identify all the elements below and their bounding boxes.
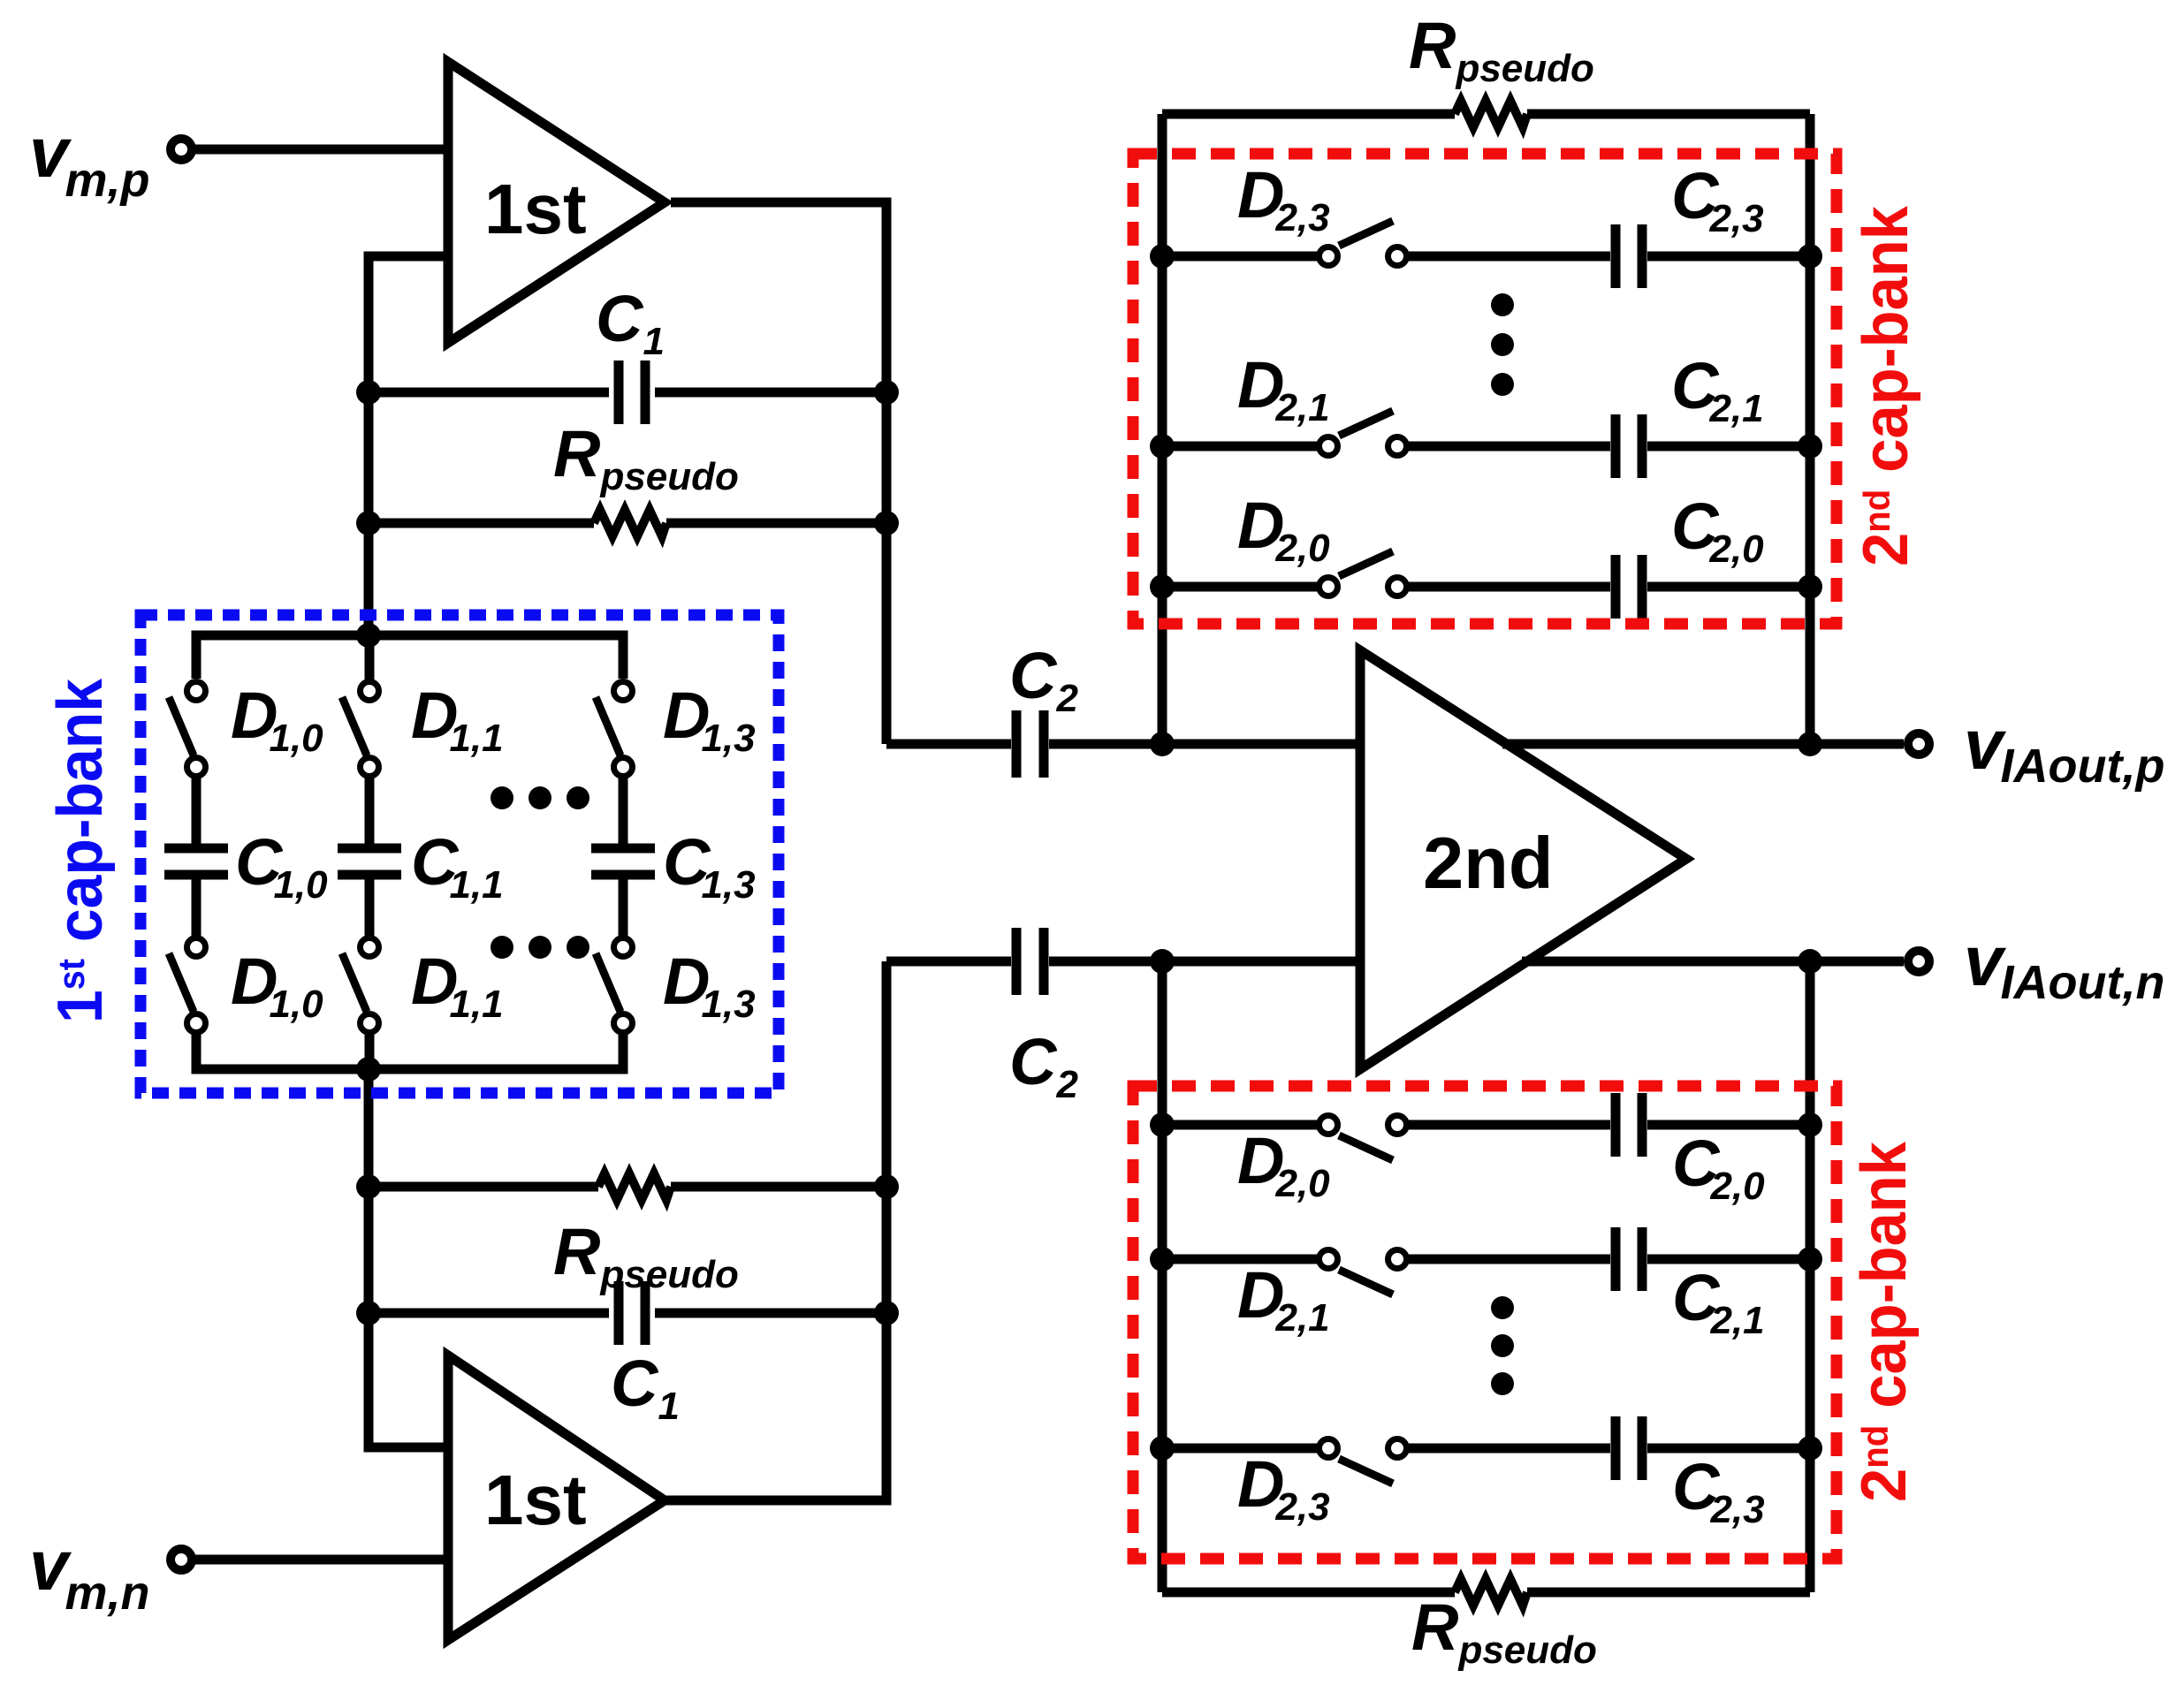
wire row D2,1 left	[1162, 1255, 1320, 1264]
switch D1,0 (bottom)	[169, 938, 206, 1033]
capacitor C1 (top)	[619, 361, 645, 424]
switch D2,0	[1319, 551, 1407, 596]
junction node top rail	[356, 623, 381, 648]
svg-text:1st: 1st	[484, 170, 587, 248]
junction node R bottom right	[874, 1174, 899, 1199]
wire row D2,0 middle	[1405, 582, 1610, 592]
switch D1,3 (bottom)	[596, 938, 633, 1033]
wire output p terminal stub	[1810, 740, 1904, 749]
junction node C2 top	[1150, 732, 1175, 756]
wire row D2,1 middle	[1405, 442, 1610, 452]
wire C1 top row left	[369, 388, 609, 398]
junction node C2 bottom	[1150, 949, 1175, 974]
capacitor C1,0	[164, 848, 228, 875]
1st cap-bank dashed box	[141, 615, 779, 1093]
capacitor C2,1	[1616, 414, 1642, 478]
ellipsis dots lower	[491, 936, 589, 959]
wire switch to cap	[619, 775, 628, 846]
wire C1 top row right	[655, 388, 886, 398]
wire U2 output to right rail	[665, 961, 886, 1500]
capacitor C2 (bottom)	[1016, 928, 1044, 995]
junction node row right	[1798, 244, 1822, 269]
resistor Rpseudo (top)	[1455, 101, 1527, 127]
wire Rpseudo top-left row right	[666, 519, 886, 528]
junction node row right	[1798, 1247, 1822, 1272]
junction node row left	[1150, 244, 1175, 269]
wire row D2,1 middle	[1405, 1255, 1610, 1264]
op-amp U3 2nd	[1360, 650, 1686, 1069]
wire 2nd cap-bank top-left rail	[1158, 114, 1167, 744]
switch D2,3	[1319, 1439, 1407, 1484]
wire switch to cap	[365, 775, 375, 846]
junction node C1 top right	[874, 380, 899, 405]
terminal v_IAout,n	[1908, 951, 1929, 972]
junction node output p	[1798, 732, 1822, 756]
wire 2nd cap-bank bottom-right rail	[1806, 961, 1815, 1592]
junction node R top left	[356, 511, 381, 535]
wire Rpseudo bottom row left	[1162, 1588, 1455, 1598]
wire row D2,1 left	[1162, 442, 1320, 452]
wire Rpseudo top row left	[1162, 110, 1455, 119]
switch D1,1 (top)	[342, 682, 379, 777]
wire switch to cap	[192, 775, 202, 846]
svg-text:1st: 1st	[484, 1461, 587, 1539]
junction node C1 bottom right	[874, 1301, 899, 1325]
junction node output n	[1798, 949, 1822, 974]
wire row C2,3 right	[1647, 252, 1810, 262]
wire row C2,0 right	[1647, 1120, 1810, 1130]
wire U1 output to right rail	[671, 202, 886, 744]
resistor Rpseudo (top-left)	[594, 510, 666, 536]
wire C2 bottom row right	[1049, 957, 1365, 967]
wire switch to bottom rail	[192, 1031, 202, 1069]
switch D2,1	[1319, 1250, 1407, 1295]
wire row D2,3 middle	[1405, 252, 1610, 262]
switch D1,1 (bottom)	[342, 938, 379, 1033]
terminal v_m,p	[171, 139, 192, 160]
switch D2,1	[1319, 411, 1407, 456]
wire 1st cap-bank top rail	[196, 635, 623, 679]
capacitor C2,0	[1616, 555, 1642, 619]
capacitor C2,3	[1616, 1416, 1642, 1480]
wire C2 bottom row	[886, 957, 1011, 967]
capacitor C2,0	[1616, 1093, 1642, 1157]
wire top rail to D1,1 switch	[365, 635, 375, 684]
wire row C2,3 right	[1647, 1444, 1810, 1454]
capacitor C1,3	[591, 848, 655, 875]
switch D2,0	[1319, 1116, 1407, 1161]
wire mid column lower segment	[369, 1069, 448, 1447]
wire C1 bottom row right	[655, 1309, 886, 1318]
wire row D2,0 middle	[1405, 1120, 1610, 1130]
ellipsis dots bottom bank	[1491, 1296, 1514, 1395]
wire switch to bottom rail	[365, 1031, 375, 1069]
wire Rpseudo bottom-left row right	[671, 1182, 886, 1192]
capacitor C2,3	[1616, 224, 1642, 288]
wire C2 top row	[886, 740, 1011, 749]
wire row C2,1 right	[1647, 442, 1810, 452]
wire C2 top row right	[1049, 740, 1365, 749]
wire 2nd cap-bank top-right rail	[1806, 114, 1815, 744]
junction node C1 top left	[356, 380, 381, 405]
ellipsis dots upper	[491, 786, 589, 809]
wire row D2,3 left	[1162, 252, 1320, 262]
wire row D2,0 left	[1162, 1120, 1320, 1130]
wire vmp input	[195, 145, 448, 155]
junction node bottom rail	[356, 1057, 381, 1082]
2nd cap-bank dashed box (top)	[1133, 154, 1837, 624]
switch D1,0 (top)	[169, 682, 206, 777]
capacitor C2 (top)	[1016, 710, 1044, 778]
switch D2,3	[1319, 221, 1407, 266]
ellipsis dots top bank	[1491, 293, 1514, 396]
2nd cap-bank dashed box (bottom)	[1133, 1086, 1837, 1559]
junction node row left	[1150, 574, 1175, 599]
wire Rpseudo bottom row right	[1527, 1588, 1810, 1598]
terminal v_m,n	[171, 1549, 192, 1570]
wire vmn input	[195, 1555, 448, 1565]
junction node row right	[1798, 1112, 1822, 1137]
junction node R bottom left	[356, 1174, 381, 1199]
wire U1 inverting input stub	[369, 256, 448, 635]
resistor Rpseudo (bottom)	[1455, 1579, 1527, 1606]
junction node R top right	[874, 511, 899, 535]
wire C1 bottom row left	[369, 1309, 609, 1318]
wire output n	[1522, 957, 1810, 967]
junction node row right	[1798, 574, 1822, 599]
wire row C2,0 right	[1647, 582, 1810, 592]
wire Rpseudo top row right	[1527, 110, 1810, 119]
terminal v_IAout,p	[1908, 733, 1929, 755]
junction node row right	[1798, 1436, 1822, 1461]
wire output p	[1502, 740, 1810, 749]
wire row D2,3 middle	[1405, 1444, 1610, 1454]
resistor Rpseudo (bottom-left)	[598, 1173, 671, 1200]
wire cap to switch	[365, 877, 375, 939]
op-amp U1 1st (top)	[448, 62, 665, 343]
junction node C1 bottom left	[356, 1301, 381, 1325]
wire row D2,3 left	[1162, 1444, 1320, 1454]
wire 1st cap-bank bottom rail	[196, 1037, 623, 1069]
junction node row left	[1150, 1112, 1175, 1137]
capacitor C2,1	[1616, 1227, 1642, 1291]
wire Rpseudo bottom-left row left	[369, 1182, 598, 1192]
capacitor C1,1	[338, 848, 401, 875]
wire switch to bottom rail	[619, 1031, 628, 1069]
svg-text:2nd: 2nd	[1423, 822, 1554, 904]
junction node row left	[1150, 1247, 1175, 1272]
wire cap to switch	[619, 877, 628, 939]
switch D1,3 (top)	[596, 682, 633, 777]
wire row D2,0 left	[1162, 582, 1320, 592]
wire row C2,1 right	[1647, 1255, 1810, 1264]
junction node row left	[1150, 1436, 1175, 1461]
wire cap to switch	[192, 877, 202, 939]
wire 2nd cap-bank bottom-left rail	[1158, 961, 1167, 1592]
wire Rpseudo top-left row left	[369, 519, 594, 528]
op-amp U2 1st (bottom)	[448, 1355, 665, 1640]
junction node row left	[1150, 434, 1175, 459]
junction node row right	[1798, 434, 1822, 459]
capacitor C1 (bottom)	[619, 1281, 645, 1345]
wire output n terminal stub	[1810, 957, 1904, 967]
